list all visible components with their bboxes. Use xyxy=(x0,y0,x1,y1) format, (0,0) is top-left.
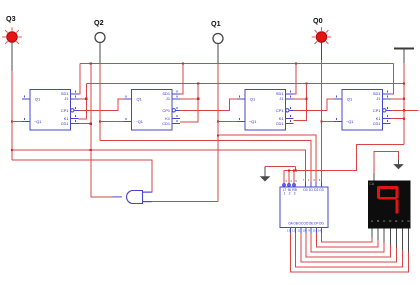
node junction Q0/~Q4 xyxy=(320,120,322,122)
node junction Q3/A0 line xyxy=(11,149,13,151)
wire decoder output Og staircase xyxy=(321,233,372,242)
wire probe Q3 stem (dark) xyxy=(11,42,13,71)
svg-text:OG: OG xyxy=(319,222,325,226)
node FF3 J tie xyxy=(305,98,307,100)
wire SD drop FF3 xyxy=(294,64,297,95)
node FF1 J tap xyxy=(85,98,87,100)
ground GND2 (near display) xyxy=(393,159,404,169)
wire net Q0 vertical down to decoder A3 xyxy=(321,60,323,182)
wire clock chain FF3.Q to FF2.CP xyxy=(179,99,237,111)
svg-text:CP1: CP1 xyxy=(373,108,381,113)
segment c xyxy=(396,200,399,214)
wire BCD A1 from Q2 net xyxy=(100,141,311,182)
svg-text:D2: D2 xyxy=(314,188,318,192)
wire net Q2 vertical xyxy=(99,64,101,141)
svg-text:Q1: Q1 xyxy=(347,97,352,102)
wire Q0 to FF4 ~Q pin xyxy=(322,121,335,123)
node CD bus / FF3 drop xyxy=(305,82,307,84)
LED probe X1 (Q3) xyxy=(2,27,22,47)
wire SD drop FF4 (right corner) xyxy=(391,64,394,95)
svg-text:11: 11 xyxy=(297,229,300,233)
wire FF2 J tie xyxy=(180,98,198,100)
svg-text:CP1: CP1 xyxy=(276,108,284,113)
svg-text:E: E xyxy=(395,219,397,223)
wire net Q1 vertical xyxy=(217,64,219,202)
flip-flop U2 (Q2) xyxy=(124,90,181,131)
svg-text:2: 2 xyxy=(289,192,291,196)
wire FF3 J tie xyxy=(294,98,307,100)
svg-text:Q3: Q3 xyxy=(6,14,16,23)
svg-text:D3: D3 xyxy=(319,188,323,192)
wire bus CD left corner down to FF1 J/K xyxy=(79,84,87,120)
wire probe Q2 stem (dark) xyxy=(99,43,101,64)
segment a xyxy=(379,186,398,189)
wire VCC rail to decoder blanking (corner left, down, left) xyxy=(296,145,404,171)
flip-flop U1 (Q3) xyxy=(22,90,79,131)
node junction Q3/~Q1 xyxy=(11,120,13,122)
svg-text:D1: D1 xyxy=(309,188,313,192)
wire FF1 J tap xyxy=(79,98,87,100)
decoder U6 (7-seg decoder) xyxy=(280,178,328,233)
svg-text:Q1: Q1 xyxy=(137,97,142,102)
wire VCC rail red vertical xyxy=(403,63,405,145)
pin letter labels xyxy=(371,219,410,223)
probe label Q0 xyxy=(313,16,323,25)
wire clock chain FF4.Q to FF3.CP xyxy=(293,99,335,111)
wire drop to decoder pin RBI xyxy=(293,171,295,184)
wire display CA to ground xyxy=(374,151,399,173)
segment f xyxy=(377,187,380,199)
wire bus CD (clear) horizontal xyxy=(86,83,404,85)
svg-text:J1: J1 xyxy=(376,96,380,101)
svg-text:CP1: CP1 xyxy=(162,108,170,113)
node FF1 CD tap xyxy=(90,123,92,125)
svg-text:~Q1: ~Q1 xyxy=(249,119,256,124)
node SD bus / FF3 drop xyxy=(295,62,297,64)
probe X3 (Q1) circle xyxy=(213,34,223,44)
probe X2 (Q2) circle xyxy=(95,33,105,43)
wire probe Q1 stem (dark) xyxy=(217,44,219,64)
wire bus SD (set) horizontal xyxy=(80,63,394,65)
svg-text:10: 10 xyxy=(302,229,306,233)
wire Q3 to FF1 ~Q pin xyxy=(12,121,22,123)
wire display CA stem (dark) xyxy=(373,173,375,181)
wire gate bottom input from Q1 net xyxy=(143,201,218,203)
LED probe X4 (Q0) xyxy=(312,27,332,47)
segment b xyxy=(396,187,399,199)
svg-text:12: 12 xyxy=(292,229,296,233)
wire drop to decoder pin LT xyxy=(283,171,285,184)
svg-text:CD1: CD1 xyxy=(276,121,284,126)
wire drop to decoder pin BI xyxy=(288,171,290,184)
svg-text:A: A xyxy=(371,219,373,223)
svg-text:D0: D0 xyxy=(303,188,307,192)
node FF4 K tie xyxy=(403,117,405,119)
flip-flop U4 (Q0) xyxy=(334,90,391,131)
node junction Q1/~Q3 xyxy=(217,120,219,122)
svg-text:J1: J1 xyxy=(279,96,283,101)
svg-text:3: 3 xyxy=(294,192,296,196)
node FF4 J tie xyxy=(403,98,405,100)
node A0/gate output vertical xyxy=(90,149,92,151)
svg-text:Q1: Q1 xyxy=(35,97,40,102)
op-amp style AND gate U5 (mirrored) xyxy=(113,191,152,204)
node junction Q2/~Q2 xyxy=(99,120,101,122)
probe label Q2 xyxy=(94,18,104,27)
seven segment display U7 xyxy=(368,181,411,229)
wire decoder output Oc staircase xyxy=(301,233,397,262)
svg-text:OF: OF xyxy=(314,222,319,226)
svg-text:~Q1: ~Q1 xyxy=(34,119,41,124)
wire FF1 CD tap xyxy=(79,123,91,125)
svg-text:14: 14 xyxy=(318,229,322,233)
wire SD drop FF2 xyxy=(180,64,183,95)
wire BCD A2 from Q1 net xyxy=(218,135,316,182)
svg-text:CD1: CD1 xyxy=(162,121,170,126)
svg-text:15: 15 xyxy=(313,229,317,233)
flip-flop U3 (Q1) xyxy=(237,90,294,131)
wire gate top input from Q3 corner xyxy=(12,160,152,192)
node FF2 J tie xyxy=(197,98,199,100)
wire FF4 J tie to VCC rail xyxy=(391,98,405,100)
wire decoder output Oa staircase xyxy=(291,233,409,272)
wire decoder output Oe staircase xyxy=(311,233,384,252)
power VCC symbol xyxy=(394,49,414,64)
wire Q2 to FF2 ~Q pin xyxy=(100,121,124,123)
wire decoder output Ob staircase xyxy=(296,233,403,267)
wire CD drop FF2 with J/K tie xyxy=(180,84,198,123)
node BI drop xyxy=(288,169,290,171)
display pin stems (dark, staggered) and red drops xyxy=(372,229,409,253)
svg-text:CP1: CP1 xyxy=(61,108,69,113)
wire BCD A0 from Q3 net xyxy=(12,150,306,182)
ground GND1 (near decoder) xyxy=(260,167,297,182)
wire probe Q0 stem (dark) xyxy=(321,42,323,60)
svg-text:Q1: Q1 xyxy=(211,19,221,28)
node CD bus / FF2 drop xyxy=(197,82,199,84)
svg-text:CD1: CD1 xyxy=(61,121,69,126)
wire decoder output Of staircase xyxy=(316,233,378,247)
svg-text:Q2: Q2 xyxy=(94,18,104,27)
svg-text:1: 1 xyxy=(284,192,286,196)
svg-text:CD1: CD1 xyxy=(373,121,381,126)
wire external clock to FF4.CP xyxy=(390,109,419,111)
node clock/VCC crossing xyxy=(403,109,405,111)
svg-text:~Q1: ~Q1 xyxy=(136,119,143,124)
svg-text:Q0: Q0 xyxy=(313,16,323,25)
wire FF4 K tie to VCC rail xyxy=(391,118,405,120)
wire decoder output Od staircase xyxy=(306,233,390,257)
wire decoder top-left pins rail xyxy=(284,170,296,172)
wire CD drop FF3 with J/K tie xyxy=(294,84,307,121)
wire net Q3 vertical to x=12 xyxy=(11,71,13,160)
wire clock chain FF2.Q to FF1.CP xyxy=(78,99,124,111)
node junction Q1/A2 line xyxy=(217,134,219,136)
wire gate output to FF1 CD xyxy=(91,64,113,197)
svg-text:~Q1: ~Q1 xyxy=(346,119,353,124)
svg-text:F: F xyxy=(402,219,404,223)
node RBI drop xyxy=(293,169,295,171)
svg-text:J1: J1 xyxy=(166,96,170,101)
wire Q1 to FF3 ~Q pin xyxy=(218,121,237,123)
svg-text:Q1: Q1 xyxy=(250,97,255,102)
svg-text:J1: J1 xyxy=(64,96,68,101)
segment g xyxy=(379,197,397,200)
svg-text:13: 13 xyxy=(287,229,291,233)
svg-text:CA: CA xyxy=(369,182,374,186)
probe label Q3 xyxy=(6,14,16,23)
svg-text:B: B xyxy=(377,219,379,223)
node SD bus / FF2 drop xyxy=(182,62,184,64)
node gate out / bus SD xyxy=(90,62,92,64)
wire SD bus left drop to FF1 xyxy=(79,64,81,95)
node VCC / CD bus xyxy=(403,82,405,84)
probe label Q1 xyxy=(211,19,221,28)
